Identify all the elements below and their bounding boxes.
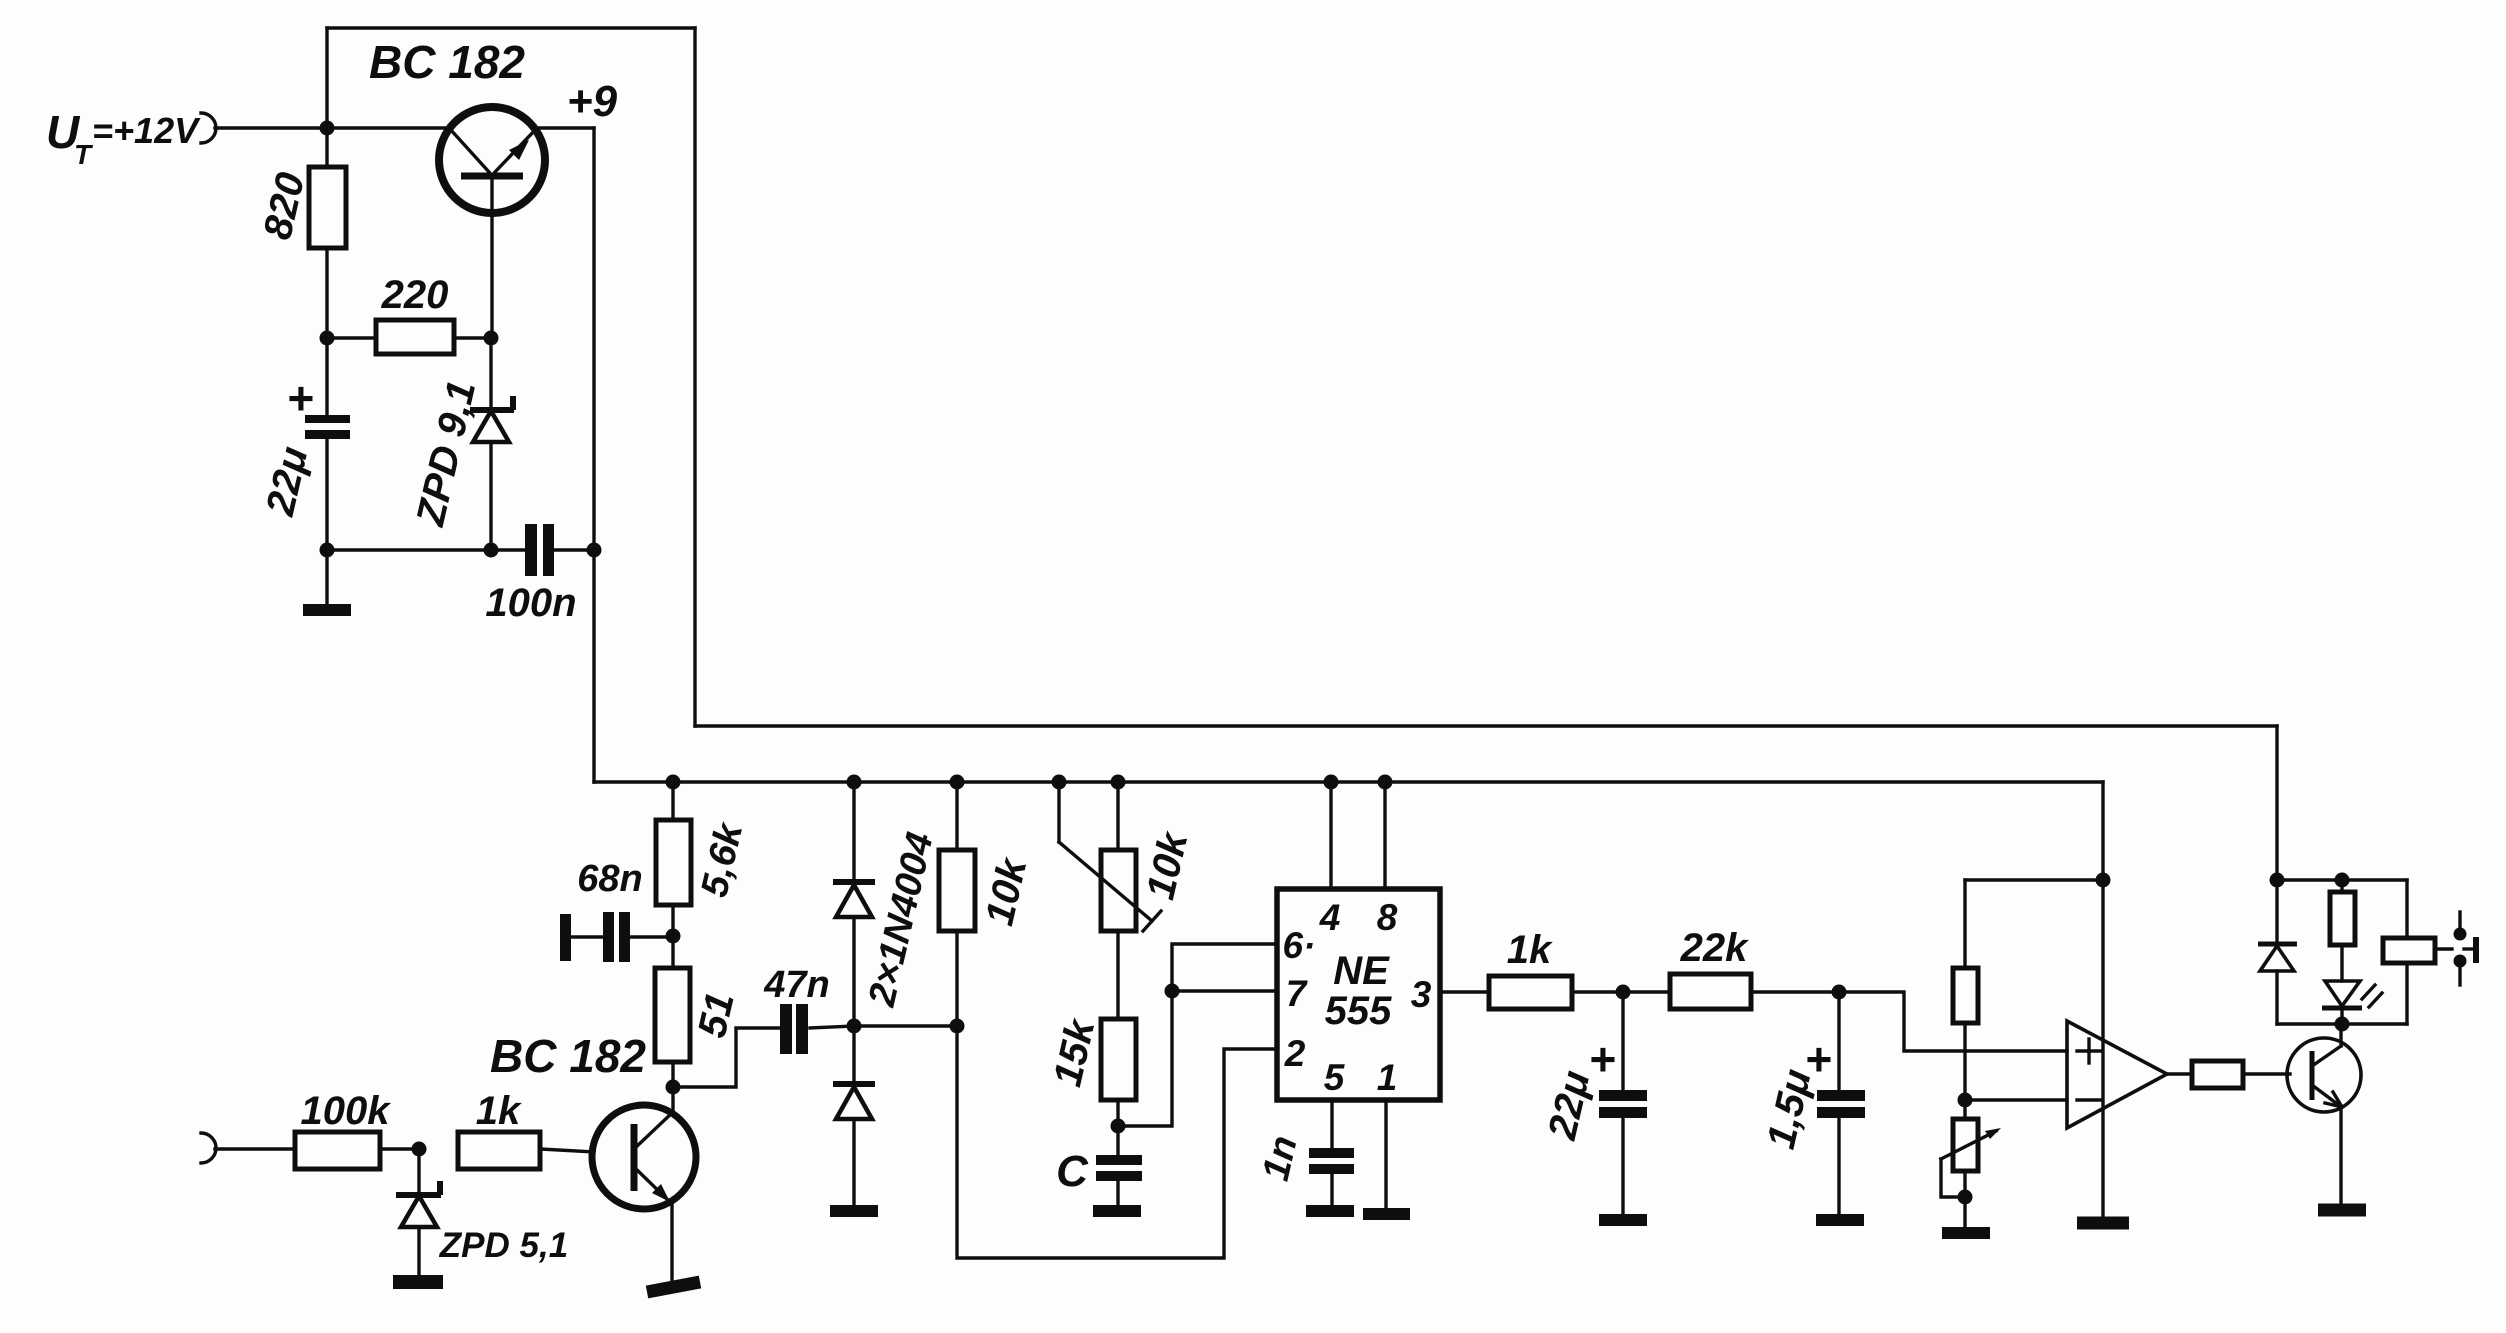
svg-text:555: 555 — [1325, 989, 1392, 1033]
ground (C) — [1093, 1205, 1141, 1217]
wire +12V bus (upper) — [695, 724, 2277, 727]
zener diode ZPD5,1 — [396, 1149, 441, 1276]
node L dot (15k/C) — [1111, 1119, 1126, 1134]
node E junction dot — [484, 543, 499, 558]
transistor Q2 BC182 (input amp) — [592, 1087, 696, 1209]
diode D1 1N4004 — [833, 782, 875, 1026]
node H dot (collector/47n) — [666, 1080, 681, 1095]
wire +9 bus (lower) — [594, 780, 2103, 783]
node UT input terminal — [201, 113, 216, 143]
resistor 1k (base) — [458, 1132, 540, 1169]
node bus dot pot top — [1111, 775, 1126, 790]
wire node K down to pin2 route — [957, 1026, 1277, 1258]
wire top rail — [327, 26, 695, 29]
svg-text:BC 182: BC 182 — [369, 36, 525, 88]
svg-text:47n: 47n — [763, 964, 829, 1006]
wire input to 100k — [215, 1147, 295, 1150]
ground (D2) — [830, 1205, 878, 1217]
relay coil K1 — [2383, 880, 2435, 1024]
pin 3 wire — [1440, 990, 1489, 993]
transistor Q3 (relay driver) — [2287, 1038, 2361, 1112]
wire bottom node D to E — [327, 548, 491, 551]
resistor 1k (output) — [1489, 976, 1572, 1009]
capacitor 47n — [780, 1004, 854, 1054]
node N dot (22u) — [1616, 985, 1631, 1000]
resistor 22k — [1670, 974, 1751, 1009]
ground (top-left) — [303, 550, 351, 610]
LED indicator — [2322, 981, 2382, 1024]
node T dot (LED branch top) — [2335, 873, 2350, 888]
svg-text:C: C — [1056, 1147, 1089, 1196]
resistor 15k — [1101, 1019, 1136, 1100]
capacitor 68n (with open stub) — [560, 912, 673, 962]
node A junction dot +12V — [320, 121, 335, 136]
node B junction dot (820/220/22u) — [320, 331, 335, 346]
wire node L to pins 6/7 — [1118, 944, 1277, 1126]
wire node A up to top rail — [325, 28, 328, 128]
node bus dot diodes — [847, 775, 862, 790]
svg-text:7: 7 — [1286, 973, 1309, 1014]
node bus dot 10k — [950, 775, 965, 790]
svg-text:=+12V: =+12V — [92, 110, 201, 151]
potentiometer 10k — [1059, 782, 1161, 1019]
svg-text:+: + — [287, 372, 314, 424]
ground (1,5u) — [1816, 1214, 1864, 1226]
diode flyback — [2258, 880, 2297, 1024]
label + (opamp) — [2077, 1039, 2101, 1063]
node bus dot pot wiper — [1052, 775, 1067, 790]
wire Q1 emitter to +9 corner — [534, 126, 594, 129]
ground (opamp) — [2077, 1217, 2129, 1230]
wire relay bottom rail — [2277, 1022, 2407, 1025]
wire opamp output — [2167, 1072, 2192, 1075]
pin 8 wire — [1383, 782, 1386, 889]
label UT=+12V — [46, 106, 201, 170]
wire relay top rail — [2277, 878, 2407, 881]
capacitor 100n — [491, 524, 594, 576]
node input terminal 2 — [201, 1133, 216, 1163]
wire +12V bus right corner down — [2275, 726, 2278, 880]
capacitor 1,5u — [1817, 992, 1865, 1216]
svg-text:2: 2 — [1284, 1033, 1306, 1074]
node Q dot (inv input) — [1958, 1093, 1973, 1108]
svg-text:3: 3 — [1411, 974, 1432, 1015]
svg-text:5: 5 — [1324, 1057, 1346, 1098]
wire node O to opamp + input — [1839, 992, 2067, 1051]
transistor Q1 BC182 (regulator) — [439, 107, 545, 213]
node bus dot pin4 — [1324, 775, 1339, 790]
wire Q2 emitter down — [670, 1203, 673, 1283]
relay contact — [2439, 912, 2476, 985]
node P dot (+9 feed) — [2096, 873, 2111, 888]
node K dot — [950, 1019, 965, 1034]
wire opamp power down through symbol to ground — [2101, 880, 2104, 1219]
node O dot (1,5u) — [1832, 985, 1847, 1000]
wire node J to node K — [854, 1024, 957, 1027]
potentiometer (threshold, unlabeled) — [1941, 1100, 2001, 1229]
op-amp U2 — [2067, 1021, 2167, 1128]
svg-text:1k: 1k — [476, 1089, 522, 1133]
resistor feedback (unlabeled) — [1963, 880, 1966, 968]
svg-text:100n: 100n — [485, 581, 576, 625]
svg-text:BC 182: BC 182 — [490, 1030, 646, 1082]
zener diode ZPD9,1 — [470, 338, 514, 550]
ground (Q2 emitter, slanted) — [647, 1282, 700, 1292]
node R dot (pot bottom) — [1958, 1190, 1973, 1205]
node U dot (collector rail) — [2335, 1017, 2350, 1032]
wire top rail right corner down — [693, 28, 696, 726]
wire Q1 base lead down — [490, 181, 493, 338]
pin 4 wire — [1329, 782, 1332, 889]
wire feedback rail — [1965, 878, 2103, 881]
svg-text:68n: 68n — [577, 858, 642, 900]
wire node H jog to 47n — [673, 1028, 780, 1087]
svg-text:220: 220 — [381, 273, 449, 317]
wire UT input to node A — [215, 126, 327, 129]
node S dot (relay + rail) — [2270, 873, 2285, 888]
svg-text:8: 8 — [1377, 897, 1398, 938]
node D bottom junction dot — [320, 543, 335, 558]
pin 1 wire — [1384, 1100, 1387, 1210]
resistor 51 — [655, 968, 690, 1062]
capacitor C — [1096, 1126, 1142, 1207]
svg-text:100k: 100k — [301, 1089, 392, 1133]
ground (22u) — [1599, 1214, 1647, 1226]
node C junction dot (base/zener) — [484, 331, 499, 346]
resistor 5,6k — [671, 782, 674, 820]
svg-text:1: 1 — [1377, 1057, 1398, 1098]
wire inv input — [1965, 1098, 2067, 1101]
ground (ZPD5,1) — [393, 1275, 443, 1289]
node J dot (clamp node) — [847, 1019, 862, 1034]
node M dot (pin7 tie) — [1165, 984, 1180, 999]
ground (pot) — [1942, 1227, 1990, 1239]
wire Q3 emitter down — [2339, 1106, 2342, 1206]
ground (pin1) — [1363, 1208, 1410, 1220]
resistor 100k — [295, 1132, 380, 1169]
svg-text:6·: 6· — [1283, 925, 1316, 966]
svg-text:NE: NE — [1333, 949, 1390, 993]
wire node A to transistor T1 collector — [327, 126, 450, 129]
capacitor 22u (electrolytic) — [305, 338, 350, 550]
wire +9 bus right corner down — [2101, 782, 2104, 880]
svg-text:1k: 1k — [1507, 928, 1553, 972]
resistor base (unlabeled) — [2192, 1061, 2243, 1088]
svg-text:+9: +9 — [567, 77, 618, 126]
svg-text:22k: 22k — [1680, 926, 1749, 970]
wire Q3 collector up — [2339, 1024, 2342, 1046]
op-amp U1 NE555 box — [1277, 889, 1440, 1100]
resistor LED series (unlabeled) — [2340, 880, 2343, 892]
capacitor 22u (filter) — [1599, 992, 1647, 1216]
resistor 820 — [325, 128, 328, 167]
pin 5 wire + capacitor 1n — [1309, 1100, 1354, 1207]
resistor 220 — [327, 336, 376, 339]
node F dot on +9 line — [587, 543, 602, 558]
wire pin 7 — [1172, 989, 1277, 992]
ground (Q3) — [2318, 1204, 2366, 1217]
ground (1n) — [1306, 1205, 1354, 1217]
svg-text:ZPD 5,1: ZPD 5,1 — [439, 1226, 568, 1265]
node bus dot 5,6k — [666, 775, 681, 790]
node I dot (zener tap) — [412, 1142, 427, 1157]
svg-text:4: 4 — [1319, 897, 1341, 938]
wire +9 vertical down to supply bus — [592, 128, 595, 782]
diode D2 1N4004 — [833, 1026, 875, 1206]
label - (opamp) — [2077, 1098, 2101, 1101]
node bus dot pin8 — [1378, 775, 1393, 790]
svg-text:T: T — [74, 139, 94, 170]
resistor 10k — [955, 782, 958, 850]
node G dot (68n tap) — [666, 929, 681, 944]
